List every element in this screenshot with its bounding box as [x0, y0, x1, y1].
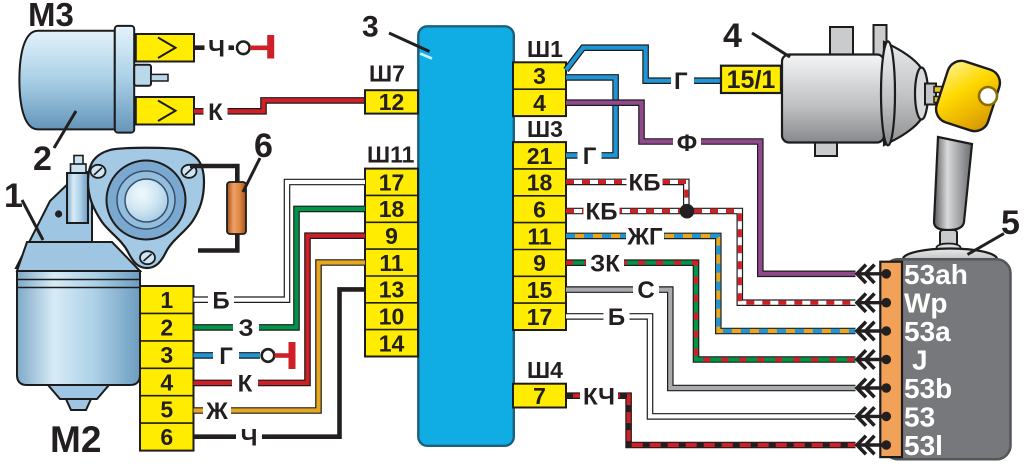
svg-text:Ф: Ф [677, 130, 697, 157]
svg-text:Ч: Ч [241, 424, 258, 451]
resistor 6 [227, 182, 246, 234]
connector Ш11 pins 17,18,9,11,13,10,14 [365, 169, 418, 357]
switch terminal 53b [858, 386, 887, 389]
relay/control unit box 3 [418, 26, 514, 446]
svg-text:6: 6 [160, 424, 173, 450]
connector Ш1 pins 3,4 [513, 62, 566, 116]
svg-text:9: 9 [385, 223, 398, 249]
svg-text:С: С [637, 277, 654, 304]
svg-text:53: 53 [904, 401, 935, 432]
svg-text:Ч: Ч [208, 35, 225, 62]
ground-bar symbol on Ч wire [250, 45, 268, 50]
svg-text:11: 11 [527, 223, 552, 249]
wire Ж (yellow) M2 pin5 to Ш11 pin11 [194, 263, 366, 411]
svg-text:КБ: КБ [629, 170, 661, 197]
svg-text:7: 7 [533, 383, 546, 409]
svg-text:53a: 53a [904, 316, 951, 347]
switch terminal 53ah [858, 272, 887, 275]
svg-text:14: 14 [379, 330, 405, 356]
svg-text:Б: Б [608, 304, 625, 331]
switch terminal 53a [858, 329, 887, 332]
svg-text:М2: М2 [50, 419, 101, 460]
M2 motor body shoulder [17, 242, 140, 271]
wire Г (blue) Ш1 pin3 to ignition 15/1 [566, 48, 671, 81]
switch terminal 53 [858, 415, 887, 418]
wire КЧ (red/black) Ш4 pin7 to switch 53l [566, 396, 856, 445]
label 3 pointer [420, 54, 432, 59]
svg-text:Г: Г [674, 68, 688, 95]
ignition switch housing tabs [830, 27, 853, 57]
ignition switch body 4 [782, 55, 884, 143]
M2 gear housing rings [107, 161, 186, 240]
wire К (red) M2 pin4 to Ш11 pin9 [194, 236, 366, 383]
svg-text:Б: Б [212, 287, 229, 314]
svg-text:2: 2 [33, 140, 52, 178]
M2 terminal block pins 1-6 [140, 286, 194, 451]
svg-text:ЗК: ЗК [590, 250, 620, 277]
svg-text:4: 4 [160, 369, 173, 395]
connector Ш4 pin 7 [513, 384, 566, 408]
wire Б (white) M2 pin1 to Ш11 pin17 [194, 182, 366, 300]
svg-text:11: 11 [379, 250, 404, 276]
svg-text:4: 4 [533, 90, 546, 116]
svg-text:53ah: 53ah [904, 259, 968, 290]
wire Г (blue) Ш1 pin3 to Ш3 pin21 [566, 77, 616, 155]
washer pump motor M3 (item 2) [19, 26, 168, 133]
svg-text:З: З [238, 315, 253, 342]
wire КБ (red/white) Ш3 pin6 to switch Wp [566, 211, 856, 303]
svg-text:Ш11: Ш11 [367, 142, 415, 168]
svg-text:Ж: Ж [205, 398, 228, 425]
key cylinder and blade [925, 84, 936, 105]
svg-text:3: 3 [533, 63, 546, 89]
svg-text:5: 5 [160, 397, 173, 423]
svg-text:17: 17 [527, 304, 553, 330]
M3 connector lug (to Ч wire) [136, 34, 194, 62]
wire КБ (red/white) Ш3 pin18 to junction [566, 182, 686, 208]
svg-text:Г: Г [583, 143, 597, 170]
svg-text:13: 13 [379, 277, 405, 303]
svg-text:Г: Г [219, 343, 233, 370]
wire Г (blue) M2 pin3 to body connector [194, 352, 261, 359]
M2 housing screws [91, 165, 106, 178]
svg-text:5: 5 [1001, 204, 1020, 242]
svg-text:1: 1 [4, 177, 23, 215]
connector circle on Г wire [262, 349, 275, 362]
wire С (gray) Ш3 pin15 to switch 53b [566, 290, 856, 388]
svg-text:Ш3: Ш3 [527, 116, 563, 142]
svg-text:4: 4 [723, 17, 742, 55]
svg-text:2: 2 [160, 314, 173, 340]
M3 connector lug (to К wire) [136, 97, 194, 125]
wire Ф (purple) Ш1 pin4 to switch 53ah [566, 103, 856, 274]
label 2 pointer [54, 111, 76, 148]
svg-text:17: 17 [379, 169, 405, 195]
svg-text:6: 6 [254, 127, 273, 165]
connector Ш7 pin 12 [365, 90, 418, 113]
svg-text:10: 10 [379, 304, 405, 330]
svg-text:12: 12 [379, 89, 405, 115]
svg-text:Ш4: Ш4 [527, 357, 563, 383]
svg-text:6: 6 [533, 197, 546, 223]
M2 mounting bracket [16, 170, 92, 268]
svg-text:М3: М3 [28, 0, 74, 33]
label 5 pointer [968, 234, 1005, 255]
svg-text:21: 21 [527, 143, 553, 169]
ground-bar symbol on Г wire [275, 353, 290, 358]
switch terminal J [858, 358, 887, 361]
M2 output boss [48, 385, 109, 399]
svg-text:3: 3 [160, 342, 173, 368]
connector Ш3 pins 21,18,6,11,9,15,17 [513, 142, 566, 330]
15/1 terminal box [721, 66, 781, 93]
svg-text:КЧ: КЧ [583, 383, 615, 410]
M2 gear housing plate [88, 148, 204, 268]
stalk switch body 5 [884, 259, 1011, 459]
svg-text:ЖГ: ЖГ [626, 224, 663, 251]
ignition bell cone [884, 42, 921, 145]
svg-text:Ш7: Ш7 [369, 61, 405, 87]
wire Ч (black) from M3 to body connector [194, 45, 234, 50]
switch terminal 53l [858, 443, 887, 446]
svg-text:53l: 53l [904, 430, 943, 461]
svg-text:К: К [238, 371, 253, 398]
wire К (red) M3 to Ш7 pin 12 [194, 100, 366, 111]
wire loop to resistor 6 [190, 166, 237, 251]
wire ЗК (green/red) Ш3 pin9 to switch J [566, 263, 856, 360]
wire ЖГ (yellow/blue) Ш3 pin11 to switch 53a [566, 236, 856, 331]
key head [932, 57, 1003, 135]
svg-text:18: 18 [379, 196, 405, 222]
wire Ч (black) M2 pin6 to Ш11 pin13 [194, 289, 366, 436]
wire З (green) M2 pin2 to Ш11 pin18 [194, 209, 366, 328]
svg-text:J: J [912, 345, 928, 376]
switch dome base [903, 249, 997, 270]
svg-text:53b: 53b [904, 373, 952, 404]
svg-text:Wp: Wp [904, 288, 948, 319]
label 6 pointer [243, 158, 260, 192]
svg-text:Ш1: Ш1 [527, 36, 563, 62]
svg-text:3: 3 [362, 11, 379, 44]
svg-text:15: 15 [527, 277, 553, 303]
connector circle on Ч wire [237, 42, 250, 55]
svg-text:К: К [208, 99, 223, 126]
switch connector strip [880, 262, 902, 457]
label 1 pointer [22, 200, 43, 240]
switch terminal Wp [858, 301, 887, 304]
stalk lever blade [934, 137, 972, 230]
wire Б (white) Ш3 pin17 to switch 53 [566, 316, 856, 416]
svg-text:15/1: 15/1 [727, 66, 776, 94]
label 4 pointer [752, 33, 790, 57]
M2 pivot post [74, 156, 83, 166]
svg-text:1: 1 [160, 287, 173, 313]
svg-text:КБ: КБ [586, 199, 618, 226]
svg-text:9: 9 [533, 250, 546, 276]
M2 motor body cylinder [17, 271, 140, 385]
svg-text:18: 18 [527, 170, 553, 196]
junction dot [680, 204, 695, 219]
